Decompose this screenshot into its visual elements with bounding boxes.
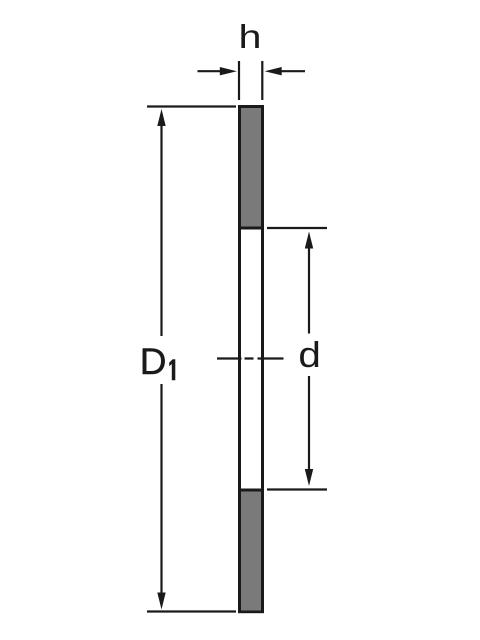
washer cross-section outline xyxy=(240,107,263,612)
h extension line right xyxy=(261,61,263,100)
D1 dimension line upper segment with arrow xyxy=(157,109,165,336)
bore top separator line xyxy=(240,227,263,230)
label D1 subscript 1 xyxy=(169,359,175,380)
svg-text:h: h xyxy=(239,18,262,55)
d extension line top xyxy=(267,227,327,229)
d extension line bottom xyxy=(267,488,327,490)
washer top grey section fill xyxy=(241,108,261,227)
D1 extension line top xyxy=(147,105,236,107)
h extension line left xyxy=(238,61,240,100)
h dimension arrow right xyxy=(265,67,305,75)
svg-text:D: D xyxy=(140,341,167,382)
D1 extension line bottom xyxy=(147,610,236,612)
d dimension line lower segment with arrow xyxy=(305,376,313,486)
centerline xyxy=(217,357,284,359)
svg-text:d: d xyxy=(298,334,321,375)
h dimension arrow left xyxy=(198,67,237,75)
d dimension line upper segment with arrow xyxy=(305,232,313,334)
bore bottom separator line xyxy=(240,489,263,492)
washer bottom grey section fill xyxy=(241,492,261,611)
D1 dimension line lower segment with arrow xyxy=(157,384,165,610)
